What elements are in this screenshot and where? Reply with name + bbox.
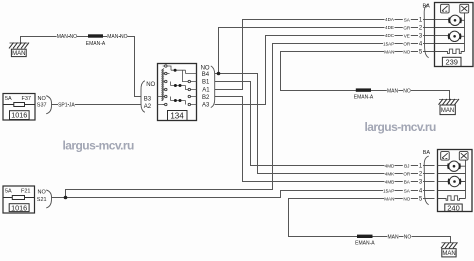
svg-text:JA: JA [69, 102, 76, 108]
svg-text:239: 239 [445, 58, 458, 67]
svg-text:MAN: MAN [442, 251, 455, 257]
svg-text:BA: BA [423, 150, 431, 156]
svg-text:largus-mcv.ru: largus-mcv.ru [63, 139, 135, 153]
svg-text:4DE: 4DE [385, 25, 394, 30]
svg-text:B1: B1 [202, 80, 210, 86]
svg-text:15AP: 15AP [383, 41, 394, 46]
svg-text:MAN: MAN [384, 196, 394, 201]
svg-text:BA: BA [404, 179, 411, 184]
svg-text:NO: NO [403, 88, 411, 94]
svg-text:15AP: 15AP [383, 188, 394, 193]
svg-text:F21: F21 [21, 188, 30, 194]
svg-text:A2: A2 [144, 104, 152, 110]
svg-text:NO: NO [120, 34, 128, 40]
svg-text:OR: OR [403, 41, 411, 46]
svg-text:SP1: SP1 [58, 102, 68, 108]
svg-text:MAN: MAN [384, 49, 394, 54]
svg-text:B4: B4 [202, 72, 210, 78]
svg-text:VE: VE [404, 33, 410, 38]
svg-text:S37: S37 [37, 103, 47, 109]
svg-text:240: 240 [447, 203, 460, 212]
svg-text:BA: BA [423, 3, 431, 9]
svg-text:NO: NO [201, 66, 210, 72]
svg-text:BJ: BJ [404, 163, 409, 168]
svg-text:5A: 5A [5, 188, 12, 194]
svg-text:NO: NO [403, 196, 410, 201]
svg-text:4MK: 4MK [385, 171, 395, 176]
svg-text:MAN: MAN [387, 234, 399, 240]
svg-text:MAN: MAN [387, 88, 399, 94]
svg-text:F37: F37 [22, 96, 31, 102]
svg-text:1016: 1016 [11, 203, 27, 212]
svg-text:NO: NO [404, 234, 412, 240]
svg-text:4MB: 4MB [385, 179, 394, 184]
svg-text:4DC: 4DC [385, 33, 395, 38]
svg-text:EMAN-A: EMAN-A [86, 41, 106, 47]
svg-text:1016: 1016 [11, 111, 27, 120]
svg-text:GR: GR [403, 25, 411, 30]
svg-text:MAN: MAN [12, 51, 25, 57]
svg-text:5A: 5A [5, 96, 12, 102]
svg-text:OR: OR [403, 171, 411, 176]
svg-text:NO: NO [146, 82, 155, 88]
svg-text:MAN: MAN [57, 34, 69, 40]
svg-text:NO: NO [38, 189, 47, 195]
svg-text:NO: NO [38, 96, 47, 102]
svg-text:NO: NO [403, 49, 410, 54]
svg-text:SA: SA [404, 17, 411, 22]
svg-text:134: 134 [170, 111, 184, 120]
svg-text:4MD: 4MD [385, 163, 395, 168]
svg-text:EMAN-A: EMAN-A [354, 94, 374, 100]
svg-text:largus-mcv.ru: largus-mcv.ru [365, 120, 437, 134]
svg-text:B3: B3 [144, 96, 152, 102]
svg-text:MAN: MAN [441, 108, 454, 114]
svg-text:S21: S21 [37, 197, 47, 203]
svg-text:4DA: 4DA [385, 17, 395, 22]
svg-text:EMAN-A: EMAN-A [355, 240, 375, 246]
svg-text:A3: A3 [202, 103, 210, 109]
svg-text:SA: SA [404, 188, 411, 193]
svg-text:A1: A1 [202, 88, 210, 94]
svg-text:B2: B2 [202, 95, 210, 101]
svg-text:NO: NO [70, 34, 78, 40]
svg-text:MAN: MAN [107, 34, 119, 40]
